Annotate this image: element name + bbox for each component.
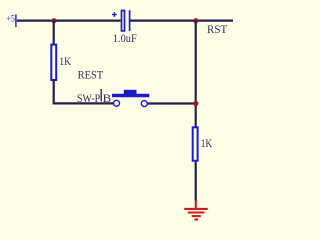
svg-text:RST: RST	[207, 22, 228, 36]
wire: top horizontal, capacitor right plate to right end (RST)	[130, 20, 234, 22]
svg-text:SW-P: SW-P	[77, 91, 100, 105]
svg-text:1K: 1K	[59, 54, 71, 68]
wire: left vertical from resistor down to switch row with corner	[54, 80, 113, 103]
push-button switch SW-PB	[112, 90, 149, 107]
svg-text:1.0uF: 1.0uF	[113, 31, 137, 45]
svg-text:B: B	[103, 91, 112, 105]
pin 1 tick mark over label	[100, 89, 102, 102]
wire: right vertical from resistor down to ground	[195, 162, 197, 201]
wire: switch right pin to right vertical	[148, 102, 196, 104]
svg-text:REST: REST	[78, 68, 104, 82]
wire: left vertical from top junction to resistor	[53, 21, 55, 44]
resistor (left, 1K)	[51, 45, 56, 80]
junction at switch row (right)	[193, 101, 198, 106]
sheet background	[0, 0, 252, 230]
ground (earth symbol)	[184, 200, 208, 219]
wire: top horizontal, +5 bar to capacitor left plate	[17, 20, 121, 22]
power port +5 (bar symbol)	[6, 14, 16, 28]
junction at +5 branch (left)	[51, 18, 56, 23]
svg-text:+5: +5	[6, 14, 15, 25]
wire: right vertical from RST junction down to lower resistor	[195, 21, 197, 127]
capacitor (polarized)	[112, 10, 130, 31]
resistor (right, 1K)	[193, 127, 198, 161]
junction at RST branch (right)	[193, 18, 198, 23]
svg-text:1K: 1K	[201, 136, 213, 150]
